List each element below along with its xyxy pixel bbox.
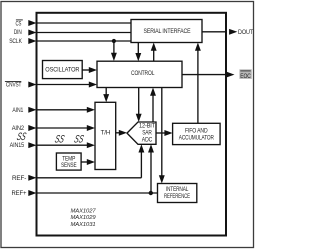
svg-text:EOC: EOC: [240, 73, 251, 80]
svg-text:ACCUMULATOR: ACCUMULATOR: [179, 135, 214, 142]
svg-text:REF+: REF+: [12, 190, 27, 197]
svg-text:FIFO AND: FIFO AND: [185, 127, 208, 134]
entry arrow AIN15: [28, 142, 36, 148]
svg-text:AIN15: AIN15: [10, 142, 25, 149]
wire AIN1 to T/H: [37, 109, 90, 111]
junction dot on REF+ wire: [149, 191, 153, 195]
svg-text:MAX1031: MAX1031: [71, 222, 96, 228]
wire REF+ horizontal to internal reference: [37, 192, 158, 194]
wire REF+ riser to ADC: [150, 150, 152, 193]
svg-text:DOUT: DOUT: [238, 29, 253, 36]
wire FIFO up to SERIAL INTERFACE: [197, 48, 199, 123]
svg-text:T/H: T/H: [101, 130, 111, 137]
channel-skip squiggle left margin: [15, 131, 27, 143]
wire DOUT from serial interface: [202, 31, 226, 33]
internal reference box: [158, 184, 197, 203]
oscillator box: [43, 61, 83, 79]
svg-text:INTERNAL: INTERNAL: [166, 186, 189, 193]
svg-text:MAX1027: MAX1027: [71, 208, 97, 214]
wire AIN15 to T/H: [37, 144, 90, 146]
wire OSCILLATOR to CONTROL: [82, 69, 90, 71]
ADC pentagon 12-bit SAR: [127, 122, 156, 144]
pin label EOC: [239, 69, 251, 80]
svg-text:AIN1: AIN1: [12, 107, 23, 114]
wire CNVST to CONTROL: [37, 84, 91, 86]
temp sense box: [56, 153, 81, 170]
exit arrow DOUT: [229, 29, 237, 35]
wire AIN2 to T/H: [37, 127, 90, 129]
svg-text:CS: CS: [16, 21, 22, 28]
wire SCLK junction down to CONTROL: [113, 41, 115, 56]
pin label CS: [16, 20, 23, 28]
entry arrow REF-: [28, 175, 36, 181]
wire T/H to ADC: [116, 132, 122, 134]
wire TEMP SENSE to T/H: [81, 161, 89, 163]
channel-skip squiggle on wires 2: [73, 134, 85, 146]
wire CONTROL down to INTERNAL REFERENCE: [161, 88, 163, 179]
svg-text:DIN: DIN: [14, 29, 22, 36]
wire REF- horizontal: [37, 177, 142, 179]
svg-text:SERIAL INTERFACE: SERIAL INTERFACE: [144, 28, 191, 35]
svg-text:REFERENCE: REFERENCE: [164, 193, 190, 200]
wire CONTROL up to SERIAL INTERFACE: [153, 48, 155, 61]
wire CS to serial interface: [37, 22, 132, 24]
svg-text:OSCILLATOR: OSCILLATOR: [45, 67, 79, 74]
entry arrow CNVST: [28, 82, 36, 88]
entry arrow AIN1: [28, 107, 36, 113]
entry arrow CS: [28, 20, 36, 26]
svg-text:CNVST: CNVST: [6, 81, 21, 88]
wire REF- riser to ADC: [140, 150, 142, 178]
wire ADC to FIFO: [156, 132, 167, 134]
serial interface box: [131, 20, 202, 43]
T/H box: [95, 102, 116, 169]
junction dot on SCLK wire: [112, 39, 116, 43]
wire DIN to serial interface: [37, 32, 132, 34]
svg-text:CONTROL: CONTROL: [131, 70, 155, 77]
entry arrow REF+: [28, 190, 36, 196]
svg-text:MAX1029: MAX1029: [71, 215, 97, 221]
svg-text:ADC: ADC: [142, 137, 153, 144]
wire EOC from control: [182, 74, 226, 76]
wire SERIAL INTERFACE down to CONTROL: [137, 43, 139, 56]
svg-text:REF-: REF-: [12, 175, 26, 182]
wire ADC up to CONTROL: [152, 93, 154, 122]
entry arrow AIN2: [28, 125, 36, 131]
wire CONTROL down to T/H: [105, 88, 107, 97]
svg-text:SCLK: SCLK: [9, 38, 22, 45]
svg-text:SENSE: SENSE: [61, 162, 77, 169]
outer frame: [1, 2, 254, 248]
exit arrow EOC: [226, 72, 234, 78]
channel-skip squiggle on wires 1: [53, 134, 65, 146]
svg-text:SAR: SAR: [142, 130, 152, 137]
wire SCLK to serial interface: [37, 40, 132, 42]
entry arrow DIN: [28, 30, 36, 36]
entry arrow SCLK: [28, 38, 36, 44]
FIFO and accumulator box: [173, 123, 221, 144]
wire CONTROL down to ADC: [138, 88, 140, 117]
control box: [97, 61, 182, 87]
pin label CNVST: [5, 81, 21, 88]
svg-text:12-BIT: 12-BIT: [139, 123, 155, 130]
main IC box: [37, 13, 227, 236]
